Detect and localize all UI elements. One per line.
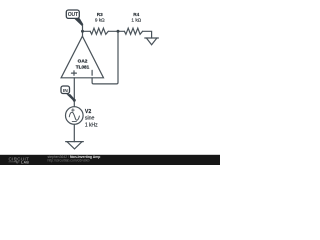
svg-text:1 kHz: 1 kHz	[85, 122, 98, 128]
svg-text:R3: R3	[97, 12, 103, 17]
svg-text:IN: IN	[63, 88, 68, 94]
svg-text:sine: sine	[85, 115, 95, 121]
svg-text:9 kΩ: 9 kΩ	[95, 17, 105, 22]
svg-text:V2: V2	[85, 109, 91, 115]
svg-text:OA2: OA2	[78, 58, 88, 63]
svg-text:R4: R4	[133, 12, 139, 17]
svg-text:OUT: OUT	[68, 12, 79, 18]
svg-text:LAB: LAB	[21, 160, 29, 164]
svg-text:http://circuitlab.com/c6rv8kb: http://circuitlab.com/c6rv8kb	[48, 158, 90, 162]
svg-text:1 kΩ: 1 kΩ	[131, 17, 141, 22]
svg-text:TL081: TL081	[76, 64, 90, 69]
